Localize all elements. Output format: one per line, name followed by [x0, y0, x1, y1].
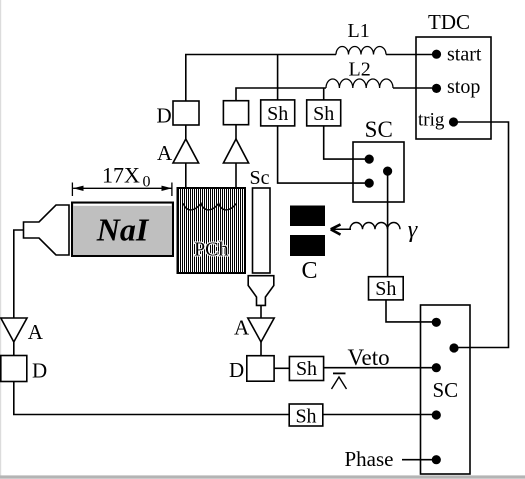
node dot SC out: [383, 167, 392, 176]
dimension label 17X0: [102, 163, 151, 191]
dimension arrow 17X0: [72, 183, 171, 197]
wire L1 to TDC start: [386, 54, 432, 56]
coincidence unit SC (small): [353, 117, 404, 202]
wire Phase to SC tall dot5: [402, 459, 433, 461]
svg-text:Phase: Phase: [345, 447, 394, 471]
svg-text:Sc: Sc: [250, 167, 270, 189]
node dot SC tall 5 (phase): [432, 455, 441, 464]
wire D to Sh (veto): [274, 367, 289, 369]
node dot SC tall 4: [432, 410, 441, 419]
amplifier A (Sc chain): [248, 318, 274, 342]
svg-text:TDC: TDC: [428, 10, 470, 34]
node dot SC tall 1: [432, 318, 441, 327]
svg-text:stop: stop: [447, 76, 480, 98]
svg-text:Sh: Sh: [313, 103, 334, 125]
wire Sh1 to SC lower dot: [278, 126, 366, 183]
svg-text:A: A: [28, 320, 44, 344]
wire Sc PMT to amplifier: [260, 305, 262, 318]
node dot trig: [449, 117, 458, 126]
svg-text:SC: SC: [432, 378, 458, 402]
scintillator Sc: [253, 188, 271, 273]
window border left: [0, 0, 1, 479]
svg-text:PCh: PCh: [194, 239, 228, 261]
wire A2 to PCh: [235, 163, 237, 188]
coincidence unit SC (tall): [421, 305, 471, 474]
wire SC out to Sh (gamma): [387, 171, 389, 277]
svg-text:D: D: [32, 359, 47, 383]
wire D (left) to Sh bottom: [14, 382, 289, 415]
svg-text:Sh: Sh: [267, 103, 288, 125]
wire Sh (gamma) to SC (tall) dot1: [386, 300, 433, 322]
wire PMT to amplifier A (left): [14, 230, 24, 318]
shaper Sh2: [307, 100, 341, 126]
wire junction line1 to Sh1: [277, 55, 279, 101]
shaper Sh (bottom): [289, 404, 323, 427]
node dot SC in1: [365, 155, 374, 164]
svg-text:C: C: [302, 258, 318, 284]
proportional chamber PCh: [178, 188, 246, 273]
shaper Sh (veto): [289, 357, 323, 381]
svg-text:start: start: [447, 43, 482, 65]
wire A to D (left): [13, 342, 15, 356]
svg-text:A: A: [157, 141, 173, 165]
discriminator D (left): [1, 356, 27, 382]
PCh anode wires (wavy line): [183, 203, 236, 210]
wire A to D (Sc chain): [260, 342, 262, 356]
photomultiplier PMT (Sc side): [248, 276, 274, 306]
wire L2 to TDC stop: [393, 87, 432, 89]
discriminator D1: [173, 101, 199, 125]
amplifier A2: [223, 139, 248, 163]
wire junction line2 to Sh2: [323, 88, 325, 100]
svg-text:Sh: Sh: [295, 405, 316, 427]
svg-text:D: D: [229, 358, 244, 382]
node dot start: [432, 50, 441, 59]
wire Sh2 to SC upper dot: [324, 126, 366, 159]
window border bottom: [0, 475, 525, 478]
amplifier A (left chain): [1, 318, 27, 342]
svg-text:Sh: Sh: [375, 278, 396, 300]
label anti-lambda: [332, 373, 347, 389]
shaper Sh1: [261, 100, 295, 126]
node dot stop: [432, 84, 441, 93]
NaI crystal: [72, 203, 173, 257]
wire D2 to A2: [235, 125, 237, 139]
svg-text:D: D: [157, 103, 172, 127]
inductor L1: [336, 47, 386, 55]
svg-text:17X: 17X: [102, 163, 140, 188]
node dot SC tall 2 (trig): [449, 343, 458, 352]
shaper Sh (gamma): [369, 277, 404, 300]
TDC box: [416, 10, 491, 139]
amplifier A1: [173, 139, 199, 163]
node dot SC tall 3 (veto): [432, 363, 441, 372]
wire D1 to L1 line: [186, 55, 336, 102]
wire veto to SC tall dot3: [324, 367, 433, 369]
svg-text:SC: SC: [365, 117, 393, 142]
inductor L2: [326, 79, 393, 88]
svg-text:Sh: Sh: [296, 358, 317, 380]
svg-text:trig: trig: [418, 109, 445, 130]
svg-text:γ: γ: [408, 217, 418, 243]
wire Sh (bottom) to SC tall dot4: [323, 414, 433, 416]
svg-text:NaI: NaI: [96, 212, 150, 248]
wire trig to SC (tall): [454, 122, 509, 348]
svg-text:L2: L2: [349, 59, 371, 81]
wire D1 to A1: [185, 125, 187, 139]
collimator C block lower: [290, 235, 325, 256]
photomultiplier PMT (NaI side): [24, 205, 70, 255]
gamma ray wavy arrow: [331, 222, 400, 234]
svg-text:A: A: [234, 316, 250, 340]
discriminator D2: [223, 101, 248, 125]
wire A1 to PCh: [185, 163, 187, 188]
node dot SC in2: [365, 179, 374, 188]
wire D2 to L2 line: [236, 88, 326, 101]
svg-text:L1: L1: [348, 20, 370, 42]
collimator C block upper: [290, 206, 325, 227]
svg-text:Veto: Veto: [348, 345, 390, 370]
discriminator D (Sc chain): [247, 356, 274, 382]
